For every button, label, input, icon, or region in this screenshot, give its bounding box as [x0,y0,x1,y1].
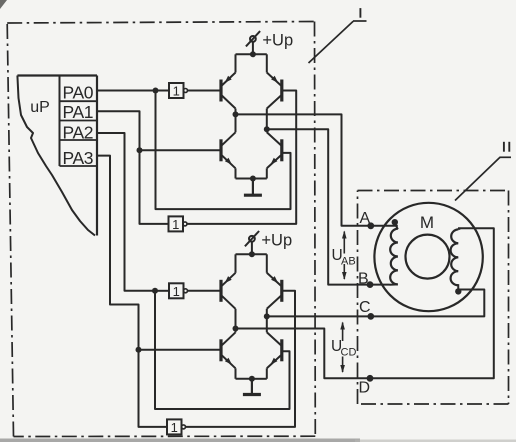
terminal C [367,313,374,320]
voltage U_AB label [332,247,356,268]
node junction right (bridge 1) [264,126,270,132]
wire Q1 collector to node [235,109,237,115]
wire Q6 collector to node [266,309,268,317]
svg-text:+Up: +Up [262,31,293,49]
pin label PA2 [63,122,94,142]
wire Q5 collector to node [235,309,237,329]
ground junction (bridge 2) [249,376,255,382]
svg-text:1: 1 [172,217,179,232]
voltage U_CD arrow [340,322,345,374]
junction winding D on stator [455,288,461,294]
uP label [30,99,50,116]
wire PA2 to junction [97,133,155,291]
svg-text:D: D [359,379,371,396]
transistor Q3 NPN bottom-left [221,132,236,168]
wire buffer G2 to Q2 base [187,91,296,224]
svg-text:PA2: PA2 [63,122,94,142]
wire PA1 to junction [97,111,140,150]
junction PA3 branch [136,347,142,353]
wire PA1 branch to buffer G2 [140,150,169,224]
wire Q3 emitter to ground rail [236,168,253,178]
port cell separator PA1/PA2 [60,120,98,122]
terminal D [367,375,374,382]
wire bridge1 node to terminal A [236,114,398,225]
wire junction to Q7 base [139,349,222,351]
motor label M [420,213,434,232]
motor stator circle M [374,203,482,311]
logic buffer gate G1 (1) [169,83,188,99]
wire PA3 to junction [97,156,139,350]
wire PA0 to buffer [97,90,169,92]
wire +Up to rail (bridge 1) [252,42,254,55]
transistor Q5 PNP top-left [221,273,236,309]
wire PA3 branch to buffer G4 [139,350,168,427]
scan artifact bottom shadow band [0,439,516,442]
rail node junction (bridge 2) [249,251,255,257]
node junction left (bridge 2) [233,326,239,332]
svg-text:M: M [420,213,434,232]
voltage U_CD label [331,338,356,359]
svg-text:PA1: PA1 [63,102,94,122]
junction PA1 branch [137,147,143,153]
svg-text:uP: uP [30,99,50,116]
wire Q7 collector to node [235,329,237,333]
port cell separator PA0/PA1 [60,100,98,102]
terminal C label [359,299,371,316]
wire PA2 branch to Q8 base [155,291,290,409]
wire bridge1 node to terminal B [267,129,390,284]
wire +Up to rail (bridge 2) [251,242,253,255]
microprocessor uP block outline [17,76,97,236]
+Up label (bridge 1) [262,31,293,49]
wire bridge2 node to terminal C [267,290,485,317]
svg-text:B: B [358,271,369,288]
pin label PA3 [63,148,94,168]
wire buffer G1 to Q1 base [188,90,222,92]
wire buffer G4 to Q6 base [186,291,296,427]
+Up supply terminal (bridge 2) [245,231,259,246]
wire Q3 collector to node [235,114,237,132]
wire rail to Q2 emitter [266,54,268,72]
wire Q4 collector to node [266,129,268,132]
wire Q7 emitter to ground rail [236,368,252,379]
svg-text:PA0: PA0 [63,83,94,103]
wire rail to Q5 emitter [235,254,237,272]
terminal B label [358,271,369,288]
svg-text:CD: CD [341,347,357,359]
+Up supply terminal (bridge 1) [246,31,260,46]
svg-text:AB: AB [341,256,356,268]
logic buffer gate G2 (1) [169,216,188,232]
svg-text:1: 1 [173,84,180,99]
transistor Q8 NPN bottom-right [267,332,282,368]
svg-text:1: 1 [173,284,180,299]
node junction left (bridge 1) [233,111,239,117]
ground symbol (bridge 2) [243,379,261,395]
transistor Q4 NPN bottom-right [267,132,282,168]
node junction right (bridge 2) [264,313,270,319]
scan artifact top-left corner speck [0,0,7,9]
wire Q2 collector to node [266,109,268,130]
wire junction to Q3 base [140,149,222,151]
svg-text:+Up: +Up [261,231,292,249]
terminal A [367,222,374,229]
junction winding A on stator [392,219,398,225]
transistor Q2 PNP top-right [267,73,282,109]
label II with leader line [455,142,511,201]
wire Q8 emitter to ground rail [252,368,267,379]
pin label PA0 [63,83,94,103]
transistor Q1 PNP top-left [221,73,236,109]
wire rail to Q6 emitter [266,254,268,272]
dash-dot frame region I (driver section) [7,22,315,437]
motor rotor circle [406,235,450,279]
voltage U_AB arrow [342,231,347,281]
motor winding left (phase AB) [390,223,398,284]
pin label PA1 [63,102,94,122]
svg-text:C: C [359,299,371,316]
junction PA0 branch [153,88,159,94]
svg-text:A: A [360,210,371,227]
terminal B [367,281,374,288]
+Up label (bridge 2) [261,231,292,249]
terminal A label [360,210,371,227]
terminal D label [359,379,371,396]
logic buffer gate G3 (1) [169,283,188,299]
wire Q4 emitter to ground rail [253,168,267,178]
motor winding right (phase CD) [451,228,461,289]
svg-text:PA3: PA3 [63,148,94,168]
ground junction (bridge 1) [250,176,256,182]
logic buffer gate G4 (1) [167,419,186,435]
supply rail wire (bridge 2) [236,253,267,255]
wire buffer G3 to Q5 base [188,290,222,292]
port cell bottom line [60,165,98,167]
supply rail wire (bridge 1) [236,53,267,55]
port cell separator PA2/PA3 [60,139,98,141]
wire PA0 branch to Q4 base [156,91,291,210]
wire bridge2 node to terminal D [236,228,494,378]
dash-dot frame region II (motor section) [358,191,509,405]
wire junction to buffer G3 [155,290,169,292]
wire rail to Q1 emitter [235,54,237,72]
svg-text:1: 1 [171,420,178,435]
transistor Q6 PNP top-right [267,273,282,309]
junction PA2 branch [152,288,158,294]
rail node junction (bridge 1) [250,51,256,57]
ground symbol (bridge 1) [244,179,262,196]
label I with leader line [309,8,367,63]
transistor Q7 NPN bottom-left [221,332,236,368]
wire Q8 collector to node [266,316,268,332]
